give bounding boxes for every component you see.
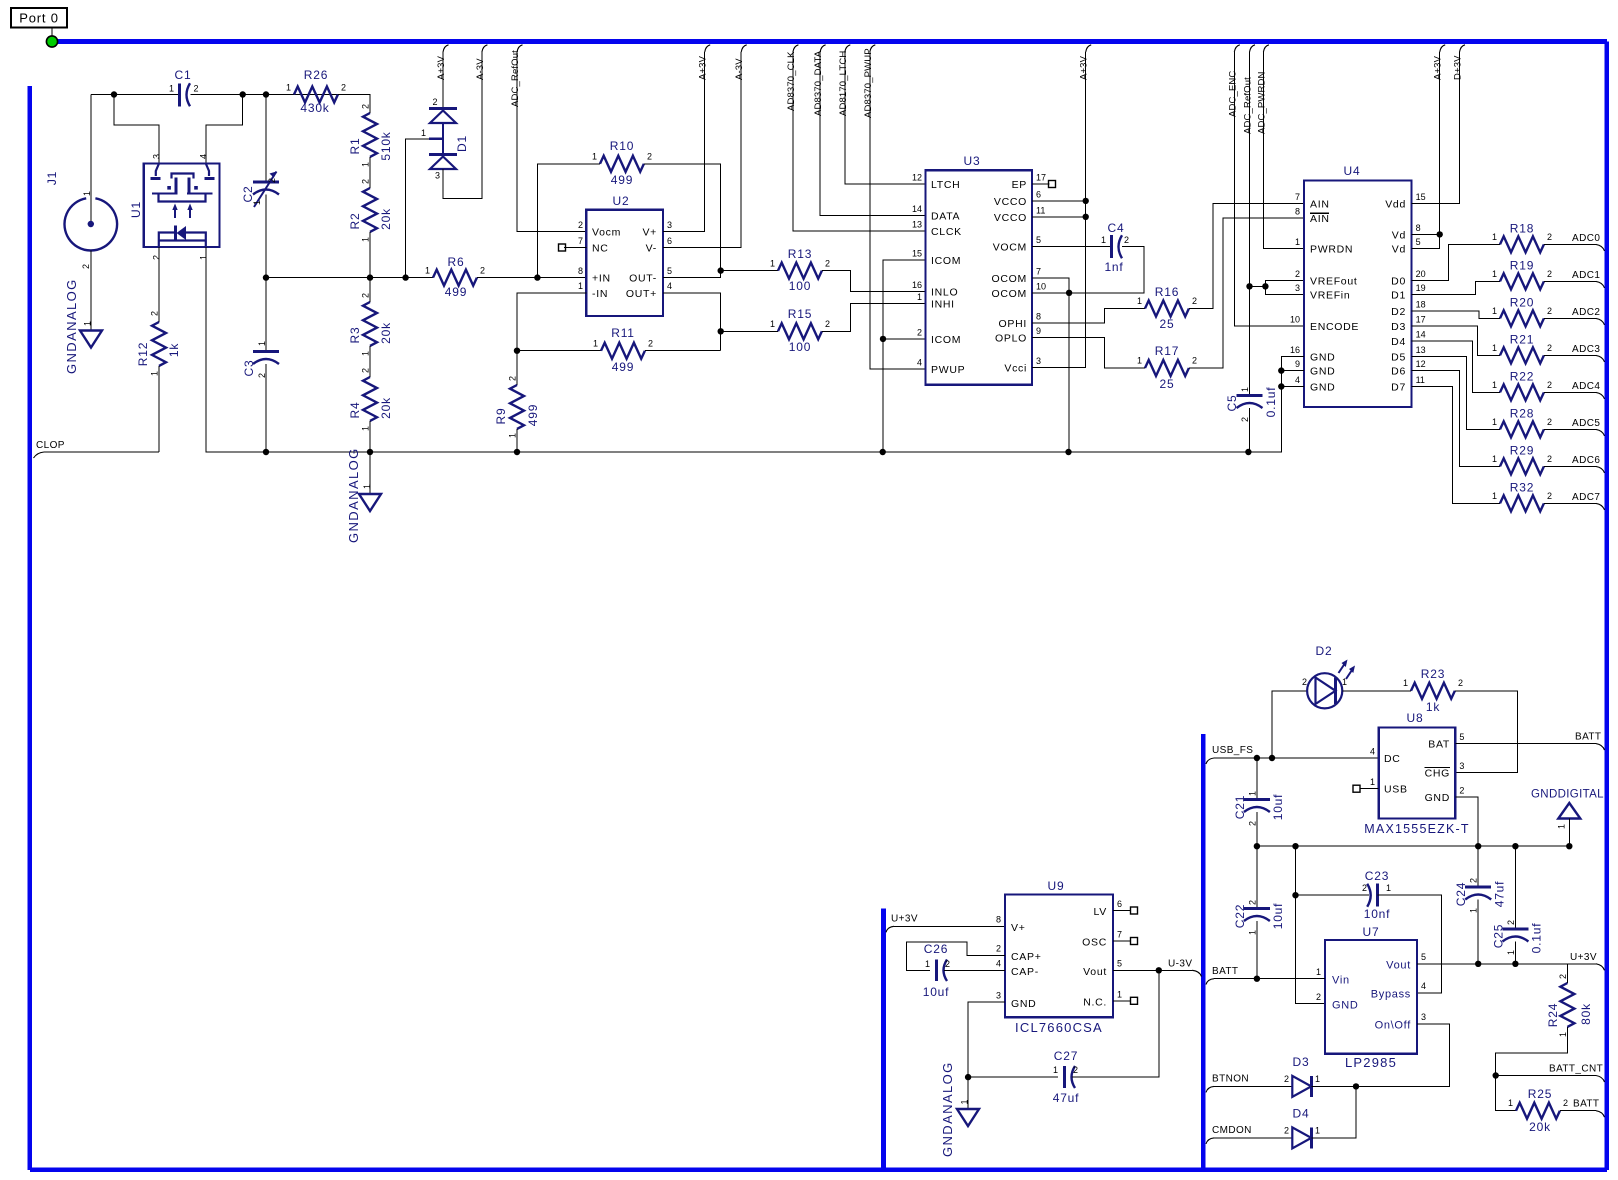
svg-text:18: 18 bbox=[1416, 300, 1426, 310]
svg-text:A-3V: A-3V bbox=[475, 58, 486, 80]
svg-text:VREFin: VREFin bbox=[1310, 290, 1350, 302]
svg-text:1: 1 bbox=[578, 281, 583, 291]
svg-text:R1: R1 bbox=[348, 138, 362, 155]
svg-text:1: 1 bbox=[169, 84, 174, 94]
resistor R2 20k bbox=[363, 188, 377, 232]
resistor R19 0 bbox=[1500, 273, 1544, 289]
wire BATT to Vin bbox=[1214, 978, 1325, 980]
svg-text:1: 1 bbox=[1492, 380, 1497, 390]
net label U+3V at U9 bbox=[886, 926, 894, 932]
svg-text:USB: USB bbox=[1384, 784, 1408, 796]
svg-text:VCCO: VCCO bbox=[994, 196, 1027, 208]
svg-text:Vout: Vout bbox=[1386, 960, 1411, 972]
svg-text:2: 2 bbox=[1547, 491, 1552, 501]
wire U4 to R20 bbox=[1412, 311, 1500, 318]
svg-text:1: 1 bbox=[1101, 235, 1106, 245]
capacitor C3 bbox=[265, 278, 267, 350]
svg-text:2: 2 bbox=[1192, 296, 1197, 306]
svg-text:U7: U7 bbox=[1363, 925, 1380, 939]
svg-text:1: 1 bbox=[1557, 824, 1567, 829]
svg-text:2: 2 bbox=[578, 220, 583, 230]
node junction RefOut bbox=[1246, 283, 1252, 289]
svg-text:5: 5 bbox=[1036, 235, 1041, 245]
node junction C21 top bbox=[1254, 755, 1260, 761]
svg-text:U+3V: U+3V bbox=[891, 913, 918, 924]
wire J1 pin2 to ground bbox=[90, 250, 92, 330]
wire digital ground row bbox=[1257, 845, 1569, 847]
pin 1 of U8 USB bbox=[1360, 788, 1379, 790]
svg-text:499: 499 bbox=[611, 173, 633, 187]
net label USB_FS bbox=[1206, 758, 1214, 764]
wire AD8370_DATA to U3 DATA bbox=[820, 52, 926, 215]
node junction U-3V bbox=[1156, 967, 1162, 973]
svg-text:1: 1 bbox=[508, 433, 518, 438]
svg-text:1: 1 bbox=[1137, 356, 1142, 366]
svg-text:GND: GND bbox=[1310, 382, 1335, 394]
svg-text:14: 14 bbox=[912, 204, 922, 214]
svg-text:Bypass: Bypass bbox=[1371, 989, 1411, 1001]
svg-text:1: 1 bbox=[1295, 237, 1300, 247]
svg-text:15: 15 bbox=[912, 248, 922, 258]
wire OCOM10 bbox=[1032, 292, 1069, 294]
svg-text:D3: D3 bbox=[1391, 321, 1406, 333]
net label CMDON bbox=[1206, 1138, 1214, 1144]
svg-text:10uf: 10uf bbox=[1271, 903, 1285, 930]
svg-text:D4: D4 bbox=[1391, 336, 1406, 348]
svg-text:4: 4 bbox=[996, 959, 1001, 969]
wire VCCO11 to A+3V bbox=[1032, 216, 1086, 218]
svg-text:CAP-: CAP- bbox=[1011, 966, 1039, 978]
svg-text:1k: 1k bbox=[1426, 700, 1440, 714]
svg-text:25: 25 bbox=[1160, 377, 1175, 391]
wire J1 riser bbox=[90, 95, 92, 225]
node junction R11/R9 bbox=[514, 348, 520, 354]
ground GNDANALOG at J1 bbox=[80, 331, 102, 348]
node junction BATT_CNT bbox=[1493, 1072, 1499, 1078]
svg-text:C24: C24 bbox=[1454, 882, 1468, 906]
svg-text:C25: C25 bbox=[1492, 924, 1506, 948]
resistor R22 0 bbox=[1500, 384, 1544, 400]
wire CAP+ loop bbox=[906, 942, 1005, 971]
svg-text:GND: GND bbox=[1310, 352, 1335, 364]
svg-text:1: 1 bbox=[1137, 296, 1142, 306]
svg-text:-IN: -IN bbox=[592, 288, 608, 300]
node junction C25 bottom bbox=[1512, 961, 1518, 967]
LED D2 bbox=[1307, 673, 1342, 708]
resistor R21 0 bbox=[1500, 347, 1544, 363]
wire R28 to border bbox=[1544, 428, 1596, 430]
svg-text:GND: GND bbox=[1425, 792, 1450, 804]
svg-text:20: 20 bbox=[1416, 269, 1426, 279]
svg-text:ADC2: ADC2 bbox=[1572, 307, 1600, 318]
svg-text:Port 0: Port 0 bbox=[19, 11, 58, 26]
svg-text:4: 4 bbox=[667, 281, 672, 291]
wire VREFout/VREFin bbox=[1265, 281, 1304, 295]
diode D1 top half bbox=[429, 107, 457, 110]
svg-text:VOCM: VOCM bbox=[993, 242, 1027, 254]
svg-text:2: 2 bbox=[1295, 269, 1300, 279]
svg-text:ADC7: ADC7 bbox=[1572, 492, 1600, 503]
svg-text:2: 2 bbox=[648, 339, 653, 349]
svg-text:R24: R24 bbox=[1546, 1003, 1560, 1027]
wire top row left bbox=[91, 94, 178, 96]
wire inner bus 2 bbox=[1201, 734, 1206, 1170]
wire A+3V to D1 bbox=[442, 52, 444, 108]
svg-text:3: 3 bbox=[996, 991, 1001, 1001]
svg-text:CLCK: CLCK bbox=[931, 226, 962, 238]
capacitor C4 1nf bbox=[1110, 235, 1113, 258]
resistor R25 20k bbox=[1516, 1103, 1560, 1119]
svg-text:1: 1 bbox=[1492, 269, 1497, 279]
wire Vdd to D+3V bbox=[1412, 52, 1460, 204]
svg-text:1: 1 bbox=[421, 128, 426, 138]
resistor R13 100 bbox=[778, 263, 822, 279]
svg-text:R4: R4 bbox=[348, 402, 362, 419]
svg-text:VCCO: VCCO bbox=[994, 212, 1027, 224]
wire OCOM7 bbox=[1032, 278, 1069, 293]
wire D3 to node bbox=[1311, 1085, 1356, 1087]
net label AD8170_LTCH bbox=[845, 45, 851, 52]
svg-text:2: 2 bbox=[945, 959, 950, 969]
svg-text:R23: R23 bbox=[1421, 667, 1445, 681]
pin 1 of U9 NC bbox=[1113, 1000, 1131, 1002]
svg-text:1: 1 bbox=[1469, 908, 1479, 913]
wire R21 to border bbox=[1544, 354, 1596, 356]
svg-text:1: 1 bbox=[1053, 1065, 1058, 1075]
svg-text:2: 2 bbox=[152, 255, 162, 260]
svg-text:1: 1 bbox=[770, 319, 775, 329]
svg-text:7: 7 bbox=[578, 236, 583, 246]
svg-text:499: 499 bbox=[526, 404, 540, 426]
node junction ICOM column bbox=[880, 449, 886, 455]
node junction OUT- R10 bbox=[718, 267, 724, 273]
svg-text:D1: D1 bbox=[1391, 290, 1406, 302]
svg-text:4: 4 bbox=[1421, 981, 1426, 991]
pin 6 of U9 LV bbox=[1113, 910, 1131, 912]
wire C27 to U-3V column bbox=[1072, 970, 1159, 1077]
svg-text:20k: 20k bbox=[379, 208, 393, 230]
op-amp U2 bbox=[586, 210, 663, 316]
svg-text:DATA: DATA bbox=[931, 210, 960, 222]
wire R15 branch bbox=[721, 330, 778, 332]
node junction D3/D4 bbox=[1353, 1083, 1359, 1089]
svg-text:ADC5: ADC5 bbox=[1572, 418, 1600, 429]
svg-text:4: 4 bbox=[198, 154, 208, 159]
svg-text:U-3V: U-3V bbox=[1168, 958, 1192, 969]
svg-text:MAX1555EZK-T: MAX1555EZK-T bbox=[1364, 822, 1469, 836]
wire ADC_ENC to ENCODE bbox=[1234, 52, 1304, 326]
wire GND9 row bbox=[1281, 370, 1304, 372]
node junction U1 pin3 riser bbox=[111, 91, 117, 97]
wire U4 to R32 bbox=[1412, 387, 1500, 504]
svg-text:ICOM: ICOM bbox=[931, 334, 961, 346]
resistor R18 0 bbox=[1500, 236, 1544, 252]
wire U4 to R18 bbox=[1412, 244, 1500, 280]
svg-text:Vocm: Vocm bbox=[592, 227, 621, 239]
capacitor C26 10uf bbox=[935, 960, 938, 982]
svg-text:LP2985: LP2985 bbox=[1345, 1055, 1397, 1070]
svg-text:OSC: OSC bbox=[1082, 937, 1107, 949]
svg-text:CMDON: CMDON bbox=[1212, 1125, 1252, 1136]
wire U1 pin2 to R12 bbox=[158, 247, 160, 322]
wire top row right of C1 bbox=[191, 94, 371, 96]
svg-text:11: 11 bbox=[1036, 205, 1045, 215]
svg-text:100: 100 bbox=[789, 340, 811, 354]
net label BTNON bbox=[1206, 1086, 1214, 1092]
node junction GNDDIGITAL bbox=[1566, 843, 1572, 849]
svg-text:2: 2 bbox=[1240, 417, 1250, 422]
wire R12 to CLOP row bbox=[158, 366, 160, 452]
svg-text:C5: C5 bbox=[1225, 395, 1239, 412]
wire BTNON to D3 bbox=[1214, 1085, 1292, 1087]
svg-text:12: 12 bbox=[912, 173, 922, 183]
svg-text:A-3V: A-3V bbox=[734, 58, 745, 80]
svg-text:3: 3 bbox=[1036, 356, 1041, 366]
wire R4 to long wire bbox=[369, 421, 371, 452]
svg-text:CHG: CHG bbox=[1425, 768, 1450, 780]
VGA amplifier U3 bbox=[926, 170, 1032, 384]
svg-text:5: 5 bbox=[667, 266, 672, 276]
net label AD8370_DATA bbox=[820, 45, 826, 52]
resistor R28 0 bbox=[1500, 421, 1544, 437]
wire R23 to CHG bbox=[1455, 691, 1517, 773]
wire left border bus bbox=[27, 86, 32, 1170]
svg-text:3: 3 bbox=[667, 220, 672, 230]
wire R11 to OUT+ column bbox=[645, 350, 721, 352]
svg-text:U+3V: U+3V bbox=[1570, 952, 1597, 963]
svg-text:Vcci: Vcci bbox=[1004, 363, 1027, 375]
transistor pair inside U1 bbox=[156, 164, 159, 177]
svg-text:7: 7 bbox=[1117, 930, 1122, 940]
wire U4 to R28 bbox=[1412, 357, 1500, 430]
resistor R17 25 bbox=[1145, 360, 1189, 376]
svg-text:8: 8 bbox=[996, 915, 1001, 925]
wire right border bus bbox=[1605, 42, 1610, 1170]
svg-text:2: 2 bbox=[150, 311, 160, 316]
svg-text:47uf: 47uf bbox=[1493, 881, 1507, 908]
node junction OCOM bbox=[1066, 290, 1072, 296]
svg-text:U4: U4 bbox=[1344, 164, 1361, 178]
svg-text:8: 8 bbox=[1416, 223, 1421, 233]
wire VREF link bbox=[1250, 285, 1266, 287]
svg-text:LTCH: LTCH bbox=[931, 179, 960, 191]
svg-text:1: 1 bbox=[361, 351, 371, 356]
wire C4 to OCOM node bbox=[1069, 247, 1144, 293]
svg-text:8: 8 bbox=[578, 266, 583, 276]
svg-text:1: 1 bbox=[770, 259, 775, 269]
svg-text:1: 1 bbox=[1315, 1126, 1320, 1136]
svg-text:OPLO: OPLO bbox=[995, 333, 1027, 345]
resistor R11 499 bbox=[601, 343, 645, 359]
svg-text:2: 2 bbox=[1506, 920, 1516, 925]
wire bottom border bus bbox=[30, 1168, 1607, 1173]
capacitor C23 10nf bbox=[1376, 884, 1379, 907]
net label A+3V at D1 bbox=[443, 45, 449, 52]
resistor R3 20k bbox=[369, 278, 371, 302]
svg-text:1k: 1k bbox=[167, 343, 181, 357]
svg-text:R20: R20 bbox=[1510, 295, 1534, 309]
resistor R12 1k bbox=[152, 322, 166, 366]
svg-text:BTNON: BTNON bbox=[1212, 1073, 1249, 1084]
svg-text:OUT-: OUT- bbox=[629, 273, 657, 285]
svg-text:1: 1 bbox=[198, 255, 208, 260]
svg-text:2: 2 bbox=[361, 368, 371, 373]
svg-text:BATT: BATT bbox=[1575, 732, 1601, 743]
wire R18 to border bbox=[1544, 243, 1596, 245]
svg-text:D2: D2 bbox=[1391, 306, 1406, 318]
svg-text:ADC0: ADC0 bbox=[1572, 233, 1600, 244]
svg-text:2: 2 bbox=[825, 319, 830, 329]
wire U4 to R29 bbox=[1412, 371, 1500, 467]
svg-text:2: 2 bbox=[194, 84, 199, 94]
svg-text:15: 15 bbox=[1416, 192, 1426, 202]
svg-text:R29: R29 bbox=[1510, 443, 1534, 457]
svg-text:CLOP: CLOP bbox=[36, 440, 65, 451]
resistor R1 510k bbox=[363, 113, 377, 157]
svg-text:10uf: 10uf bbox=[1271, 794, 1285, 821]
wire U7 GND column bbox=[1296, 846, 1325, 1004]
wire C2 top bbox=[265, 95, 267, 181]
node junction U7 GND column bbox=[1292, 843, 1298, 849]
svg-text:R26: R26 bbox=[304, 68, 328, 82]
svg-text:6: 6 bbox=[1036, 189, 1041, 199]
svg-text:GND: GND bbox=[1310, 366, 1335, 378]
svg-text:OUT+: OUT+ bbox=[626, 288, 657, 300]
svg-text:1: 1 bbox=[1247, 930, 1257, 935]
svg-text:V+: V+ bbox=[642, 227, 657, 239]
svg-text:2: 2 bbox=[1124, 235, 1129, 245]
svg-text:8: 8 bbox=[1295, 206, 1300, 216]
wire U1 pin3 riser bbox=[114, 95, 159, 164]
svg-text:N.C.: N.C. bbox=[1083, 996, 1107, 1008]
node junction GND4 bbox=[1278, 383, 1284, 389]
resistor R20 0 bbox=[1500, 310, 1544, 326]
svg-text:1: 1 bbox=[82, 191, 92, 196]
ADC U4 bbox=[1304, 181, 1412, 408]
svg-text:2: 2 bbox=[341, 83, 346, 93]
svg-text:Vout: Vout bbox=[1083, 966, 1107, 978]
wire R17 to AIN-bar bbox=[1189, 218, 1304, 368]
wire USB_FS row bbox=[1214, 757, 1379, 759]
svg-text:17: 17 bbox=[1036, 173, 1046, 183]
svg-text:2: 2 bbox=[1362, 883, 1367, 893]
svg-text:430k: 430k bbox=[300, 101, 329, 115]
node Port 0 pin bbox=[46, 36, 57, 47]
svg-text:1: 1 bbox=[1492, 454, 1497, 464]
svg-text:2: 2 bbox=[508, 376, 518, 381]
svg-text:2: 2 bbox=[361, 293, 371, 298]
svg-text:BATT: BATT bbox=[1212, 966, 1238, 977]
svg-text:2: 2 bbox=[1284, 1074, 1289, 1084]
wire R10 left column bbox=[537, 164, 600, 278]
node junction Vd8 bbox=[1437, 231, 1443, 237]
svg-text:D4: D4 bbox=[1293, 1107, 1310, 1121]
svg-text:1: 1 bbox=[1240, 387, 1250, 392]
svg-text:5: 5 bbox=[1459, 732, 1464, 742]
wire GND4 row bbox=[1281, 386, 1304, 388]
wire U2 V+ to A+3V bbox=[663, 52, 705, 231]
svg-text:2: 2 bbox=[1547, 380, 1552, 390]
svg-text:NC: NC bbox=[592, 243, 609, 255]
svg-text:R3: R3 bbox=[348, 327, 362, 344]
net label ADC_RefOut left bbox=[517, 45, 523, 52]
resistor R24 80k bbox=[1566, 964, 1568, 983]
wire R13 to U3 INLO bbox=[822, 271, 926, 292]
ground GNDANALOG at U9 bbox=[967, 1077, 969, 1108]
optocoupler U1 bbox=[144, 164, 220, 248]
node junction D1 pin1 column bbox=[402, 274, 408, 280]
net label A-3V at D1 bbox=[482, 45, 488, 52]
svg-text:2: 2 bbox=[1547, 343, 1552, 353]
svg-text:2: 2 bbox=[825, 259, 830, 269]
net label ADC_PWRDN bbox=[1263, 45, 1269, 52]
svg-text:R16: R16 bbox=[1155, 285, 1179, 299]
photo arrows inside U1 bbox=[174, 208, 176, 218]
node junction C5 bottom bbox=[1245, 449, 1251, 455]
node junction VCCO11 bbox=[1083, 214, 1089, 220]
svg-text:1: 1 bbox=[257, 341, 267, 346]
wire U1 pin4 riser bbox=[206, 95, 243, 164]
node junction C2 column bbox=[263, 91, 269, 97]
diode D4 bbox=[1292, 1127, 1311, 1148]
svg-text:1: 1 bbox=[925, 959, 930, 969]
svg-text:ADC_PWRDN: ADC_PWRDN bbox=[1256, 71, 1267, 134]
svg-text:2: 2 bbox=[1459, 786, 1464, 796]
wire D4 to node bbox=[1311, 1086, 1356, 1138]
wire OPHI to R16 bbox=[1032, 309, 1145, 323]
svg-text:C27: C27 bbox=[1054, 1049, 1078, 1063]
svg-text:U9: U9 bbox=[1048, 879, 1065, 893]
capacitor C2 variable bbox=[253, 181, 279, 184]
node junction GND9 bbox=[1278, 367, 1284, 373]
svg-text:16: 16 bbox=[912, 280, 922, 290]
svg-text:2: 2 bbox=[267, 178, 277, 183]
svg-text:14: 14 bbox=[1416, 329, 1426, 339]
node junction C23 left bbox=[1292, 892, 1298, 898]
svg-text:OCOM: OCOM bbox=[992, 273, 1027, 285]
svg-text:J1: J1 bbox=[45, 171, 59, 185]
wire Vd8 bbox=[1412, 233, 1440, 235]
wire U8 GND down bbox=[1455, 797, 1478, 846]
svg-text:USB_FS: USB_FS bbox=[1212, 745, 1253, 756]
wire ADC_RefOut to U2 Vocm bbox=[517, 52, 586, 231]
svg-text:5: 5 bbox=[1117, 959, 1122, 969]
diode D3 bbox=[1292, 1076, 1311, 1097]
wire R1 to R2 bbox=[369, 157, 371, 188]
wire D2 to R23 bbox=[1342, 690, 1411, 692]
svg-text:17: 17 bbox=[1416, 315, 1426, 325]
resistor R4 20k bbox=[363, 377, 377, 421]
wire VCCO6 to A+3V bbox=[1032, 200, 1086, 202]
svg-text:1: 1 bbox=[425, 266, 430, 276]
node junction VCCO6 bbox=[1083, 198, 1089, 204]
wire BATT_CNT row bbox=[1496, 1075, 1596, 1077]
svg-text:4: 4 bbox=[1295, 375, 1300, 385]
svg-text:4: 4 bbox=[917, 357, 922, 367]
wire R24 to BATT_CNT bbox=[1496, 1027, 1568, 1076]
svg-text:AD8370_DATA: AD8370_DATA bbox=[813, 50, 824, 116]
capacitor C27 47uf bbox=[1063, 1066, 1066, 1088]
svg-text:ENCODE: ENCODE bbox=[1310, 321, 1359, 333]
wire R15 to U3 INHI bbox=[822, 304, 926, 332]
node junction U8 GND / C24 bbox=[1475, 843, 1481, 849]
svg-text:ICL7660CSA: ICL7660CSA bbox=[1015, 1020, 1103, 1035]
svg-text:2: 2 bbox=[1547, 269, 1552, 279]
wire D2 left leg bbox=[1272, 691, 1307, 758]
svg-text:2: 2 bbox=[361, 104, 371, 109]
svg-text:1nf: 1nf bbox=[1104, 260, 1123, 274]
svg-text:ADC_ENC: ADC_ENC bbox=[1227, 71, 1238, 117]
